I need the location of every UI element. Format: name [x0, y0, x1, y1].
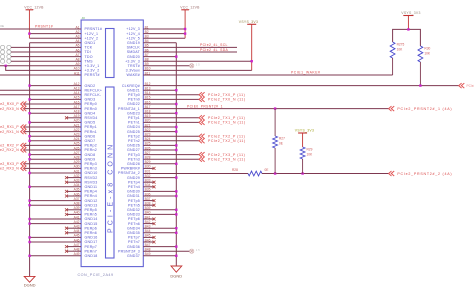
no-connect A48 PERn7 [65, 250, 81, 253]
svg-text:PETp0: PETp0 [128, 93, 140, 97]
wire A38 GND13 to left ground bus [30, 204, 82, 206]
wire B31 PRSNT2#_2 left segment [143, 173, 248, 175]
svg-text:0E: 0E [279, 142, 283, 146]
svg-text:PETp1: PETp1 [128, 116, 140, 120]
svg-text:PERp4: PERp4 [85, 190, 97, 194]
wire A31 GND10 to left ground bus [30, 172, 82, 174]
wire A29 PERp3 to off-page [24, 163, 81, 165]
junction right bus B25 [175, 144, 177, 146]
svg-text:GND9: GND9 [85, 157, 96, 161]
junction VCC_12VB B1 [184, 28, 186, 30]
wire A46 GND17 to left ground bus [30, 241, 82, 243]
junction right bus B40 [175, 213, 177, 215]
svg-text:GND29: GND29 [127, 176, 140, 180]
power symbol VCC_12VB (right) [180, 5, 200, 38]
wire B8 +3.3V_3 [143, 60, 251, 62]
wire A22 PERn1 to off-page [24, 131, 81, 133]
svg-text:TDI: TDI [85, 50, 91, 54]
pin B32 GND29 [127, 174, 151, 180]
svg-text:TCK: TCK [85, 46, 93, 50]
wire B40 GND33 to right ground bus [143, 213, 176, 215]
pin A48 PERn7 [74, 248, 97, 254]
off-page connector PCIe2_RX1_P [0, 125, 26, 130]
no-connect B30 PWRBRK# [143, 167, 155, 170]
svg-text:+12V_5: +12V_5 [126, 37, 140, 41]
wire B32 GND29 to right ground bus [143, 177, 176, 179]
junction R29 bottom [301, 172, 303, 174]
wire A16 PERp0 to off-page [24, 103, 81, 105]
no-connect B45 PETp7 [143, 236, 155, 239]
svg-text:PRSNT2#_3: PRSNT2#_3 [118, 249, 140, 253]
svg-text:GND32: GND32 [127, 208, 140, 212]
no-connect B34 PETn4 [143, 185, 155, 188]
pin B38 PETn5 [128, 202, 151, 208]
off-page connector PCIe2_RX0_P [0, 102, 26, 107]
pin B4 GND19 [127, 39, 149, 45]
junction left bus A23 [28, 135, 30, 137]
wire B44 GND35 to right ground bus [143, 232, 176, 234]
wire B35 GND30 to right ground bus [143, 190, 176, 192]
junction right bus B13 [175, 89, 177, 91]
wire B36 GND31 to right ground bus [143, 195, 176, 197]
off-page connector PCIe2_RX3_P [0, 161, 26, 166]
wire B16 GND22 to right ground bus [143, 103, 176, 105]
pin B15 PETn0 [128, 96, 151, 102]
svg-text:PETn1: PETn1 [128, 121, 140, 125]
off-page connector PCIe2_TX0_P [199, 92, 245, 97]
pin B20 PETn1 [128, 119, 151, 125]
pin A29 PERp3 [74, 160, 97, 166]
power symbol VSYS_3V3 (top right) [401, 11, 420, 30]
svg-text:PCIe2_TX1_N (11): PCIe2_TX1_N (11) [208, 121, 246, 125]
off-page connector PCIe2_TX3_N [199, 157, 246, 162]
junction right bus B32 [175, 176, 177, 178]
svg-text:PERn7: PERn7 [85, 249, 97, 253]
svg-text:PCIE0_PRSNT2#_1: PCIE0_PRSNT2#_1 [187, 104, 223, 108]
junction right bus B21 [175, 126, 177, 128]
pin B9 TRST# [128, 62, 149, 68]
junction R27 bottom [274, 172, 276, 174]
resistor R27 0E (PRSNT2#_1 to PRSNT2#_2) [273, 109, 285, 174]
wire A27 GND8 to left ground bus [30, 154, 82, 156]
svg-text:PERn0: PERn0 [85, 107, 97, 111]
svg-text:PCIe2_TX0_N (11): PCIe2_TX0_N (11) [208, 98, 246, 102]
pin B33 PETp4 [128, 179, 151, 185]
wire A11 PERST# to left edge [0, 74, 81, 76]
no-connect B41 PETp6 [143, 218, 155, 221]
svg-text:GND24: GND24 [127, 125, 140, 129]
off-page connector PCIe2_TX2_N [199, 138, 246, 143]
svg-text:PRSNT1#: PRSNT1# [35, 24, 53, 28]
pin A40 PERn5 [74, 211, 97, 217]
wire A37 GND12 to left ground bus [30, 200, 82, 202]
svg-text:PETp6: PETp6 [128, 217, 140, 221]
wire B27 PETp3 to off-page [143, 154, 199, 156]
pin B22 GND25 [127, 128, 151, 134]
svg-text:GND10: GND10 [85, 171, 98, 175]
pin B37 PETp5 [128, 197, 151, 203]
svg-text:PETn6: PETn6 [128, 222, 140, 226]
wire A45 GND16 to left ground bus [30, 236, 82, 238]
junction VSYS_3V3 rail [407, 28, 409, 30]
svg-text:GND17: GND17 [85, 240, 98, 244]
svg-text:RSVD2: RSVD2 [85, 176, 98, 180]
wire B26 GND27 to right ground bus [143, 149, 176, 151]
svg-text:VSYS_3V3: VSYS_3V3 [295, 129, 314, 133]
svg-text:GND5: GND5 [85, 121, 96, 125]
wire B24 PETn2 to off-page [143, 140, 199, 142]
wire B28 PETn3 to off-page [143, 158, 199, 160]
pin B17 PRSNT2#_1 [118, 105, 151, 111]
ground symbol DGND (left) [24, 276, 36, 287]
pin A15 GND3 [74, 96, 96, 102]
pin A44 PERn6 [74, 229, 97, 235]
wire +3.3V branch down to A10 [6, 66, 81, 71]
svg-text:PETn5: PETn5 [128, 203, 140, 207]
wire A26 PERn2 to off-page [24, 149, 81, 151]
no-connect A39 PERp5 [65, 208, 81, 211]
svg-text:+3.3V_2: +3.3V_2 [85, 69, 100, 73]
wire B7 GND20 to right ground bus [143, 56, 176, 58]
junction right bus B47 [175, 245, 177, 247]
wire A12 GND2 to left ground bus [30, 85, 82, 87]
svg-text:REFCLK-: REFCLK- [85, 93, 102, 97]
pin A7 TDO [75, 53, 92, 59]
junction left bus A34 [28, 186, 30, 188]
off-page connector PCIe2_RX2_P [0, 143, 26, 148]
junction left bus A20 [28, 121, 30, 123]
junction right bus B43 [175, 227, 177, 229]
svg-text:GND14: GND14 [85, 217, 98, 221]
connector J3 PCI-E-X8 CONN body [81, 20, 143, 267]
pin B5 SMCLK [127, 44, 149, 50]
svg-text:10K: 10K [424, 52, 431, 56]
pin A47 PERp7 [74, 243, 97, 249]
svg-text:VSYS_3V3: VSYS_3V3 [239, 20, 258, 24]
svg-text:GND28: GND28 [127, 162, 140, 166]
svg-text:PCIe2_RX1_N: PCIe2_RX1_N [0, 130, 19, 134]
wire B5 SMCLK [143, 46, 237, 48]
svg-text:REFCLK+: REFCLK+ [85, 88, 103, 92]
svg-text:R275: R275 [397, 43, 405, 47]
junction right bus B7 [175, 55, 177, 57]
wire A20 GND5 to left ground bus [30, 121, 82, 123]
junction right bus B22 [175, 130, 177, 132]
wire A3 +12V_2 [29, 37, 81, 39]
pin A6 TDI [75, 48, 90, 54]
svg-text:PETp2: PETp2 [128, 134, 140, 138]
pin A17 PERn0 [74, 105, 97, 111]
off-page connector PCIe2_RX3_N [0, 166, 26, 171]
svg-text:PCI-E-x8 CONN: PCI-E-x8 CONN [107, 142, 114, 233]
svg-text:10K: 10K [307, 153, 314, 157]
svg-text:PETp3: PETp3 [128, 153, 140, 157]
junction on VCC_12VB at A2 [28, 32, 30, 34]
pin B46 PETn7 [128, 238, 151, 244]
pin A31 GND10 [74, 169, 98, 175]
svg-text:PERn3: PERn3 [85, 167, 97, 171]
junction R27 top on PRSNT2#_1 [274, 107, 276, 109]
power symbol VCC_12VB (left) [24, 5, 44, 38]
svg-text:PETp4: PETp4 [128, 180, 140, 184]
pin B21 GND24 [127, 123, 151, 129]
power symbol VSYS_3V3 (bottom middle) [295, 129, 314, 148]
off-page connector PCIe2_PRSNT2#_2 (4A) [389, 171, 453, 176]
svg-text:+3.3V_1: +3.3V_1 [85, 64, 100, 68]
wire A2 +12V_1 [29, 33, 81, 35]
pin A14 REFCLK- [74, 91, 102, 97]
wire B22 GND25 to right ground bus [143, 131, 176, 133]
junction right bus B35 [175, 190, 177, 192]
pin A41 GND14 [74, 215, 98, 221]
wire header to A6 TDI [11, 51, 81, 53]
svg-text:WAKE#: WAKE# [127, 73, 140, 77]
junction +3.3V branch [5, 65, 7, 67]
junction left bus A37 [28, 199, 30, 201]
wire A30 PERn3 to off-page [24, 167, 81, 169]
pin A10 +3.3V_2 [74, 67, 100, 73]
junction right bus B26 [175, 149, 177, 151]
svg-text:PETn0: PETn0 [128, 98, 140, 102]
pin B8 +3.3V_3 [125, 58, 149, 64]
svg-text:PERp0: PERp0 [85, 102, 97, 106]
pin B12 CLKREQ# [122, 82, 151, 88]
svg-text:GND8: GND8 [85, 153, 96, 157]
pin A20 GND5 [74, 119, 96, 125]
wire A15 GND3 to left ground bus [30, 98, 82, 100]
no-connect A44 PERn6 [65, 231, 81, 234]
svg-text:PWRBRK#: PWRBRK# [121, 167, 140, 171]
wire B31 PRSNT2#_2 right segment [262, 173, 389, 175]
svg-text:PCIe2_RX3_N: PCIe2_RX3_N [0, 167, 19, 171]
junction left bus A38 [28, 204, 30, 206]
wire B29 GND28 to right ground bus [143, 163, 176, 165]
svg-text:PETn4: PETn4 [128, 185, 140, 189]
svg-text:GND20: GND20 [127, 55, 140, 59]
svg-text:PCIe2_RX2_N: PCIe2_RX2_N [0, 148, 19, 152]
svg-text:GND1: GND1 [85, 41, 96, 45]
svg-text:PERp7: PERp7 [85, 245, 97, 249]
junction left bus A12 [28, 84, 30, 86]
pin B34 PETn4 [128, 183, 151, 189]
svg-text:0E: 0E [0, 24, 4, 28]
pin A11 PERST# [74, 71, 100, 77]
off-page connector PCIe2_TX3_P [199, 152, 245, 157]
svg-text:GND4: GND4 [85, 111, 96, 115]
pin B16 GND22 [127, 100, 151, 106]
pin A45 GND16 [74, 234, 98, 240]
svg-text:3.3Vaux: 3.3Vaux [126, 69, 140, 73]
resistor R275 10K (WAKE# pull-up) [390, 42, 404, 75]
svg-text:GND37: GND37 [127, 254, 140, 258]
wire B39 GND32 to right ground bus [143, 209, 176, 211]
resistor R30 10K (CLKREQ# pull-up) [418, 46, 431, 86]
svg-text:PCIe2_RX0_N: PCIe2_RX0_N [0, 107, 19, 111]
pin B36 GND31 [127, 192, 151, 198]
no-connect A32 RSVD2 [65, 176, 81, 179]
svg-text:GND12: GND12 [85, 199, 98, 203]
pin B35 GND30 [127, 188, 151, 194]
left ground bus [29, 43, 31, 277]
pin B40 GND33 [127, 211, 151, 217]
pin A13 REFCLK+ [74, 87, 103, 93]
svg-text:GND22: GND22 [127, 102, 140, 106]
svg-text:TRST#: TRST# [128, 64, 140, 68]
svg-text:GND36: GND36 [127, 245, 140, 249]
wire B13 GND21 to right ground bus [143, 89, 176, 91]
svg-text:PCIE1_WAKE#: PCIE1_WAKE# [291, 71, 320, 75]
wire B11 WAKE# / PCIE1_WAKE# [143, 74, 392, 76]
no-connect A40 PERn5 [65, 213, 81, 216]
pin A37 GND12 [74, 197, 98, 203]
pin B43 GND34 [127, 225, 151, 231]
svg-text:PCIe2_CLKREQ#: PCIe2_CLKREQ# [467, 84, 474, 88]
wire B18 GND23 to right ground bus [143, 112, 176, 114]
wire B2 +12V_4 [143, 33, 185, 35]
wire A41 GND14 to left ground bus [30, 218, 82, 220]
resistor R28 0E inline [232, 168, 268, 176]
pin A16 PERp0 [74, 100, 97, 106]
wire A17 PERn0 to off-page [24, 108, 81, 110]
pin B48 PRSNT2#_3 [118, 248, 151, 254]
svg-text:PCIe2_4L_SCL: PCIe2_4L_SCL [200, 43, 228, 47]
power symbol VSYS_3V3 (middle top) [239, 20, 258, 71]
svg-text:PRSNT2#_1: PRSNT2#_1 [118, 107, 140, 111]
wire B6 SMDAT [143, 51, 237, 53]
wire B23 PETp2 to off-page [143, 135, 199, 137]
svg-text:+3.3V_3: +3.3V_3 [125, 59, 140, 63]
svg-text:GND33: GND33 [127, 213, 140, 217]
junction right bus B49 [175, 255, 177, 257]
wire A34 GND11 to left ground bus [30, 186, 82, 188]
wire B14 PETp0 to off-page [143, 94, 199, 96]
svg-text:GND30: GND30 [127, 190, 140, 194]
svg-text:GND15: GND15 [85, 222, 98, 226]
svg-text:PRSNT1#: PRSNT1# [85, 27, 103, 31]
wire A4 GND1 to left ground bus [30, 42, 82, 44]
svg-text:+12V_2: +12V_2 [85, 37, 99, 41]
pin A35 PERp4 [74, 188, 97, 194]
pin B2 +12V_4 [126, 30, 149, 36]
pin A4 GND1 [75, 39, 95, 45]
wire B15 PETn0 to off-page [143, 98, 199, 100]
wire B43 GND34 to right ground bus [143, 227, 176, 229]
svg-text:PETn3: PETn3 [128, 157, 140, 161]
pin A30 PERn3 [74, 165, 97, 171]
svg-text:PETn7: PETn7 [128, 240, 140, 244]
pin A21 PERp1 [74, 123, 97, 129]
svg-text:PERn4: PERn4 [85, 194, 97, 198]
wire A49 GND18 to left ground bus [30, 255, 82, 257]
pin B28 PETn3 [128, 156, 151, 162]
svg-text:PETp7: PETp7 [128, 236, 140, 240]
no-connect A19 RSVD4 [65, 116, 81, 119]
svg-text:J3: J3 [82, 16, 86, 20]
no-connect A47 PERp7 [65, 245, 81, 248]
svg-text:PCIe2_RX2_P: PCIe2_RX2_P [0, 144, 19, 148]
off-page connector PCIe2_RX0_N [0, 106, 26, 111]
svg-text:GND2: GND2 [85, 84, 96, 88]
wire B20 PETn1 to off-page [143, 121, 199, 123]
wire B47 GND36 to right ground bus [143, 246, 176, 248]
pin A46 GND17 [74, 238, 98, 244]
pin A22 PERn1 [74, 128, 97, 134]
no-connect B9 TRST# [143, 63, 200, 68]
svg-text:PCIe2_TX0_P (11): PCIe2_TX0_P (11) [208, 93, 245, 97]
svg-text:PCIe2_TX3_N (11): PCIe2_TX3_N (11) [208, 157, 246, 161]
pin B10 3.3Vaux [126, 67, 151, 73]
svg-text:PERn5: PERn5 [85, 213, 97, 217]
pin B23 PETp2 [128, 133, 151, 139]
svg-text:TDO: TDO [85, 55, 93, 59]
svg-text:PETn2: PETn2 [128, 139, 140, 143]
pin A43 PERp6 [74, 225, 97, 231]
wire A1 PRSNT1# to left edge [0, 28, 81, 30]
pin B25 GND26 [127, 142, 151, 148]
wire A28 GND9 to left ground bus [30, 158, 82, 160]
off-page connector PCIe2_RX2_N [0, 148, 26, 153]
pin A28 GND9 [74, 156, 96, 162]
pin A34 GND11 [74, 183, 98, 189]
pin B3 +12V_5 [126, 35, 149, 41]
pin A25 PERp2 [74, 142, 97, 148]
svg-text:GND3: GND3 [85, 98, 96, 102]
wire B10 3.3Vaux [143, 69, 251, 71]
svg-text:PCIe2_4L_SDA: PCIe2_4L_SDA [200, 48, 229, 52]
junction left bus A42 [28, 222, 30, 224]
svg-text:VSYS_3V3: VSYS_3V3 [401, 11, 420, 15]
no-connect B38 PETn5 [143, 204, 155, 207]
no-connect B33 PETp4 [143, 181, 155, 184]
off-page connector PCIe2_TX0_N [199, 97, 246, 102]
off-page connector PCIe2_PRSNT2#_1 (4A) [389, 106, 453, 111]
svg-text:B31: B31 [145, 169, 151, 173]
junction left bus A27 [28, 153, 30, 155]
pin A2 +12V_1 [75, 30, 98, 36]
wire VSYS_3V3 rail to R275 and R30 [393, 29, 421, 46]
no-connect B48 PRSNT2#_3 with circle [143, 248, 200, 253]
svg-text:PCIe2_PRSNT2#_1 (4A): PCIe2_PRSNT2#_1 (4A) [397, 107, 452, 111]
pin B39 GND32 [127, 206, 151, 212]
pin A8 TMS [75, 58, 93, 64]
wire header to A8 TMS [11, 60, 81, 62]
pin A12 GND2 [74, 82, 96, 88]
svg-text:CLKREQ#: CLKREQ# [122, 84, 140, 88]
pin A32 RSVD2 [74, 174, 98, 180]
wire header to A5 TCK [11, 46, 81, 48]
svg-text:PCIe2_RX0_P: PCIe2_RX0_P [0, 102, 19, 106]
svg-text:PCIe2_TX1_P (11): PCIe2_TX1_P (11) [208, 116, 245, 120]
svg-text:GND6: GND6 [85, 134, 96, 138]
svg-text:VCC_12VB: VCC_12VB [180, 5, 200, 9]
off-page connector PCIe2_TX1_N [199, 120, 246, 125]
pin A26 PERn2 [74, 146, 97, 152]
wire B21 GND24 to right ground bus [143, 126, 176, 128]
pin B47 GND36 [127, 243, 151, 249]
svg-text:GND11: GND11 [85, 185, 98, 189]
pin A19 RSVD4 [74, 114, 98, 120]
pin B18 GND23 [127, 110, 151, 116]
svg-text:DGND: DGND [24, 283, 36, 288]
ground symbol DGND (right) [170, 266, 182, 278]
svg-text:GND27: GND27 [127, 148, 140, 152]
pin A33 RSVD3 [74, 179, 98, 185]
wire A14 REFCLK- to left edge [0, 94, 81, 96]
junction left bus A15 [28, 98, 30, 100]
svg-text:GND34: GND34 [127, 226, 140, 230]
svg-text:0E: 0E [265, 168, 269, 172]
svg-text:+12V_3: +12V_3 [126, 27, 140, 31]
